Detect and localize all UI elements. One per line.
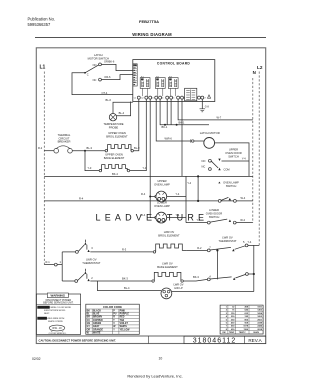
svg-text:Rendered by LeadVenture, Inc.: Rendered by LeadVenture, Inc. bbox=[127, 373, 182, 378]
svg-text:RM: RM bbox=[223, 332, 226, 334]
svg-text:CONTROL BOARD: CONTROL BOARD bbox=[157, 62, 190, 66]
svg-text:R-1: R-1 bbox=[46, 260, 51, 264]
wire W-7 to N bbox=[178, 99, 253, 120]
svg-text:4: 4 bbox=[209, 274, 211, 278]
svg-text:BREAKER: BREAKER bbox=[58, 140, 71, 144]
svg-text:CAUTION: DISCONNECT POWER B: CAUTION: DISCONNECT POWER BEFORE SERVICI… bbox=[39, 338, 117, 342]
wire Y-4 vertical bus bbox=[186, 176, 192, 222]
svg-text:Y-3: Y-3 bbox=[143, 166, 147, 170]
svg-text:R/W - 18: R/W - 18 bbox=[52, 328, 62, 330]
lower oven door switch bbox=[186, 208, 253, 224]
svg-text:COM: COM bbox=[224, 168, 230, 172]
svg-text:BK: BK bbox=[87, 310, 91, 312]
wire bus BL-3 to broil element bbox=[131, 99, 140, 152]
diagram frame bbox=[36, 48, 265, 344]
latch motor bbox=[200, 131, 220, 148]
svg-text:BL-4: BL-4 bbox=[119, 111, 125, 115]
svg-text:L2: L2 bbox=[257, 65, 263, 70]
warning box bbox=[36, 293, 80, 335]
svg-text:BEFORE SERVICING UNIT.: BEFORE SERVICING UNIT. bbox=[43, 302, 74, 305]
svg-text:WHITE: WHITE bbox=[93, 333, 101, 335]
svg-text:LATCH MOTOR: LATCH MOTOR bbox=[200, 131, 220, 135]
board terminals row bbox=[134, 96, 206, 100]
pin symbol delta bbox=[208, 95, 211, 98]
svg-text:UPPER OVEN: UPPER OVEN bbox=[108, 131, 126, 135]
svg-text:450: 450 bbox=[231, 322, 235, 325]
svg-text:OVEN LAMP: OVEN LAMP bbox=[223, 181, 239, 185]
wire bus to lamp line bbox=[181, 99, 183, 176]
svg-text:C3: C3 bbox=[151, 98, 153, 100]
svg-text:C7: C7 bbox=[203, 98, 205, 100]
svg-text:Y-4: Y-4 bbox=[242, 157, 246, 161]
wire N continuation vertical bbox=[253, 245, 255, 291]
svg-text:GY: GY bbox=[87, 326, 91, 328]
latch motor switch NC contact bbox=[93, 75, 111, 82]
svg-text:WIRE COLOR WORD: WIRE COLOR WORD bbox=[51, 307, 72, 309]
svg-text:PINK: PINK bbox=[120, 310, 126, 312]
svg-text:PURPLE: PURPLE bbox=[120, 314, 130, 316]
svg-text:COPPER: COPPER bbox=[93, 320, 103, 322]
svg-text:NC: NC bbox=[93, 78, 97, 82]
svg-text:THICK WIRE:: THICK WIRE: bbox=[38, 307, 51, 309]
wire hid lamp row bbox=[172, 291, 254, 293]
upper oven door switch bbox=[202, 147, 242, 171]
thermal circuit breaker bbox=[38, 133, 105, 153]
svg-text:BL-3: BL-3 bbox=[87, 146, 93, 150]
svg-text:LOWER: LOWER bbox=[157, 201, 167, 205]
node N bbox=[253, 70, 256, 222]
caution strip bbox=[36, 336, 265, 344]
svg-text:W-4: W-4 bbox=[240, 218, 245, 222]
svg-text:1654: 1654 bbox=[257, 312, 262, 315]
svg-text:Y-4: Y-4 bbox=[176, 192, 180, 196]
svg-text:PROBE: PROBE bbox=[109, 125, 119, 129]
svg-text:TAN: TAN bbox=[120, 319, 125, 322]
svg-text:THERMOSTAT: THERMOSTAT bbox=[218, 239, 236, 243]
lower oven lamp bbox=[154, 201, 170, 223]
svg-text:745: 745 bbox=[245, 315, 249, 318]
svg-text:BL-6: BL-6 bbox=[106, 98, 112, 102]
svg-text:OVEN LAMP: OVEN LAMP bbox=[154, 183, 170, 187]
svg-text:HID LP: HID LP bbox=[174, 286, 183, 290]
upper oven lamp bbox=[154, 179, 170, 202]
svg-text:PU: PU bbox=[113, 314, 117, 316]
svg-text:4: 4 bbox=[226, 315, 228, 318]
svg-text:W-7: W-7 bbox=[217, 115, 222, 119]
wire BK-1 bbox=[160, 99, 209, 129]
svg-text:R-4: R-4 bbox=[79, 197, 84, 201]
svg-text:OVEN LAMP: OVEN LAMP bbox=[154, 204, 170, 208]
svg-text:R-4: R-4 bbox=[141, 213, 146, 217]
svg-text:TEMP: TEMP bbox=[229, 332, 235, 334]
svg-text:LWR OV: LWR OV bbox=[162, 262, 173, 266]
color code table bbox=[86, 304, 140, 334]
svg-text:Y-3: Y-3 bbox=[88, 166, 92, 170]
svg-text:C5: C5 bbox=[172, 98, 174, 100]
relay K3 bbox=[168, 76, 178, 96]
svg-text:SWITCH: SWITCH bbox=[226, 184, 237, 188]
svg-text:BAKE ELEMENT: BAKE ELEMENT bbox=[104, 156, 125, 160]
svg-text:NC: NC bbox=[202, 165, 206, 169]
svg-text:OVEN DOOR: OVEN DOOR bbox=[206, 212, 222, 216]
svg-text:BROWN: BROWN bbox=[93, 317, 102, 319]
svg-text:VIOLET: VIOLET bbox=[120, 323, 129, 325]
svg-text:LWR OV: LWR OV bbox=[222, 236, 233, 240]
svg-text:498: 498 bbox=[245, 306, 249, 309]
lower oven broil element bbox=[90, 230, 186, 253]
wire thermostat to bake row bbox=[216, 249, 218, 279]
svg-text:C4: C4 bbox=[161, 98, 163, 100]
svg-text:W/R-6: W/R-6 bbox=[165, 136, 173, 140]
svg-text:FIRST/STRIPE WORD: FIRST/STRIPE WORD bbox=[44, 310, 66, 312]
svg-text:EXAMPLE:: EXAMPLE: bbox=[38, 317, 49, 320]
svg-text:Y-4: Y-4 bbox=[176, 213, 180, 217]
svg-text:R-2: R-2 bbox=[197, 246, 202, 250]
svg-text:OHMS: OHMS bbox=[253, 332, 259, 334]
svg-text:LATCH: LATCH bbox=[94, 53, 103, 57]
svg-text:UPPER OVEN: UPPER OVEN bbox=[105, 153, 123, 157]
svg-text:3: 3 bbox=[91, 246, 93, 250]
svg-text:C1: C1 bbox=[134, 98, 136, 100]
wire bus Y-3 to bake element bbox=[127, 99, 147, 172]
svg-text:WHITE STRIPE: WHITE STRIPE bbox=[48, 321, 63, 323]
svg-text:Y-4: Y-4 bbox=[248, 240, 252, 244]
title block part number bbox=[184, 336, 266, 344]
svg-text:546: 546 bbox=[245, 309, 249, 312]
wire Y-3 left branch bbox=[85, 151, 102, 172]
svg-text:BAKE ELEMENT: BAKE ELEMENT bbox=[157, 265, 178, 269]
svg-text:BROIL ELEMENT: BROIL ELEMENT bbox=[106, 135, 128, 139]
svg-text:C6: C6 bbox=[183, 98, 185, 100]
svg-text:RED WIRE WITH: RED WIRE WITH bbox=[48, 318, 65, 320]
svg-text:L1: L1 bbox=[40, 65, 46, 71]
lower oven thermostat left bbox=[44, 240, 100, 283]
svg-text:G-8: G-8 bbox=[205, 106, 210, 109]
header rule bbox=[35, 37, 266, 39]
svg-text:2: 2 bbox=[91, 276, 93, 280]
svg-text:Y-4: Y-4 bbox=[187, 181, 191, 185]
wire BL-6 probe to board bbox=[106, 98, 133, 114]
svg-text:2444: 2444 bbox=[257, 325, 262, 328]
svg-text:BL-3: BL-3 bbox=[134, 146, 140, 150]
transformer T1 bbox=[185, 88, 197, 101]
header publication text bbox=[28, 17, 56, 27]
svg-text:5995366357: 5995366357 bbox=[28, 22, 51, 27]
svg-text:LWR OV: LWR OV bbox=[164, 230, 175, 234]
svg-text:RED: RED bbox=[120, 317, 125, 319]
svg-text:N: N bbox=[253, 70, 256, 75]
svg-text:W-4: W-4 bbox=[241, 196, 246, 200]
upper oven broil element bbox=[105, 131, 131, 152]
svg-text:OR/BK-6: OR/BK-6 bbox=[104, 60, 115, 64]
svg-text:R-4: R-4 bbox=[141, 192, 146, 196]
svg-text:CU: CU bbox=[87, 320, 91, 322]
svg-text:1: 1 bbox=[60, 260, 62, 264]
svg-text:REV.A: REV.A bbox=[248, 338, 262, 343]
svg-text:WHITE: WHITE bbox=[120, 326, 128, 328]
connector P1 ribbon bbox=[133, 64, 137, 86]
svg-text:5: 5 bbox=[243, 240, 245, 244]
svg-text:UPPER: UPPER bbox=[157, 179, 166, 183]
svg-text:318046112: 318046112 bbox=[193, 338, 237, 345]
node L1 bbox=[40, 65, 46, 265]
wire bus R-4 to oven lamps bbox=[141, 99, 157, 219]
svg-text:SWITCH: SWITCH bbox=[228, 154, 239, 158]
upper oven bake element bbox=[102, 153, 128, 171]
svg-text:BLUE: BLUE bbox=[93, 314, 100, 316]
svg-text:BK-3: BK-3 bbox=[193, 275, 199, 279]
svg-text:BL-4: BL-4 bbox=[124, 286, 130, 290]
svg-text:SWITCH: SWITCH bbox=[209, 215, 220, 219]
svg-text:OT-4: OT-4 bbox=[102, 91, 108, 95]
wire lower lamp to Y-4 bus bbox=[167, 213, 186, 218]
svg-text:BR: BR bbox=[87, 317, 91, 319]
wire upper lamp to Y-4 bus bbox=[167, 192, 186, 197]
wire BL-4 probe to board bbox=[117, 102, 131, 116]
wire bake element to switch bbox=[183, 273, 255, 281]
svg-text:C2: C2 bbox=[141, 98, 143, 100]
svg-text:GREEN: GREEN bbox=[93, 323, 102, 325]
svg-text:R-2: R-2 bbox=[38, 146, 43, 150]
wire BL-4 to hid lamp bbox=[98, 281, 162, 291]
svg-text:BK-3: BK-3 bbox=[122, 276, 128, 280]
wire OT-4 bbox=[72, 73, 133, 95]
latch motor switch label bbox=[88, 53, 109, 61]
svg-text:GRAY: GRAY bbox=[93, 325, 100, 328]
svg-text:1453: 1453 bbox=[257, 309, 262, 312]
latch motor switch blade bbox=[84, 65, 99, 77]
oven lamp switch bbox=[198, 176, 246, 202]
svg-text:GN: GN bbox=[87, 323, 91, 325]
lower oven thermostat right bbox=[186, 236, 259, 252]
svg-text:TEMP F: TEMP F bbox=[239, 332, 247, 334]
latch motor switch NO contact bbox=[93, 60, 115, 67]
svg-text:LOWER: LOWER bbox=[209, 208, 219, 212]
ground bbox=[200, 99, 210, 112]
relay K1 bbox=[140, 76, 150, 96]
svg-text:02/02: 02/02 bbox=[32, 357, 41, 361]
svg-text:WIRING DIAGRAM: WIRING DIAGRAM bbox=[132, 32, 172, 37]
long wire lamp row bbox=[44, 197, 253, 202]
long wire R-4 row bbox=[44, 172, 253, 178]
svg-text:BLACK: BLACK bbox=[93, 309, 101, 312]
svg-text:FEB27T5A: FEB27T5A bbox=[139, 19, 159, 24]
svg-text:BROIL ELEMENT: BROIL ELEMENT bbox=[158, 233, 180, 237]
wire NC to connector bbox=[101, 75, 132, 80]
svg-text:10: 10 bbox=[159, 357, 163, 361]
lower oven bake element bbox=[90, 262, 183, 282]
svg-text:WARNING: WARNING bbox=[51, 294, 66, 298]
svg-text:UPPER: UPPER bbox=[229, 147, 238, 151]
temperature probe bbox=[103, 114, 123, 130]
lower oven hidden lamp bbox=[161, 283, 184, 299]
svg-text:Y-4: Y-4 bbox=[197, 218, 201, 222]
svg-text:BK-4: BK-4 bbox=[112, 172, 118, 176]
svg-text:ORANGE: ORANGE bbox=[93, 328, 104, 331]
relay K2 bbox=[155, 76, 165, 96]
svg-text:LWR OV: LWR OV bbox=[173, 283, 183, 287]
wire NO to connector bbox=[101, 64, 132, 70]
node L2 bbox=[257, 65, 263, 245]
svg-text:OR: OR bbox=[87, 329, 91, 331]
wire latch motor to node bbox=[215, 143, 249, 177]
svg-text:R-3: R-3 bbox=[122, 247, 127, 251]
svg-text:THERMOSTAT: THERMOSTAT bbox=[82, 261, 100, 265]
svg-text:LWR OV: LWR OV bbox=[86, 258, 97, 262]
svg-text:NO: NO bbox=[202, 159, 206, 163]
svg-text:OR-6: OR-6 bbox=[104, 75, 111, 79]
wire bus W/R-6 to latch motor bbox=[156, 99, 204, 143]
svg-text:COLOR CODE: COLOR CODE bbox=[103, 305, 122, 309]
svg-text:COLOR WIRE NO.: COLOR WIRE NO. bbox=[49, 333, 67, 335]
control board U1 bbox=[133, 60, 215, 102]
temperature resistance chart bbox=[220, 305, 263, 334]
svg-text:2248: 2248 bbox=[257, 322, 262, 325]
svg-text:BK-1: BK-1 bbox=[162, 125, 168, 129]
svg-text:YELLOW: YELLOW bbox=[120, 329, 131, 331]
svg-text:NEXT.: NEXT. bbox=[44, 313, 50, 315]
svg-text:OVEN DOOR: OVEN DOOR bbox=[225, 151, 241, 155]
wire Y-4 door switch output bbox=[222, 157, 250, 161]
svg-text:C: C bbox=[87, 72, 89, 76]
